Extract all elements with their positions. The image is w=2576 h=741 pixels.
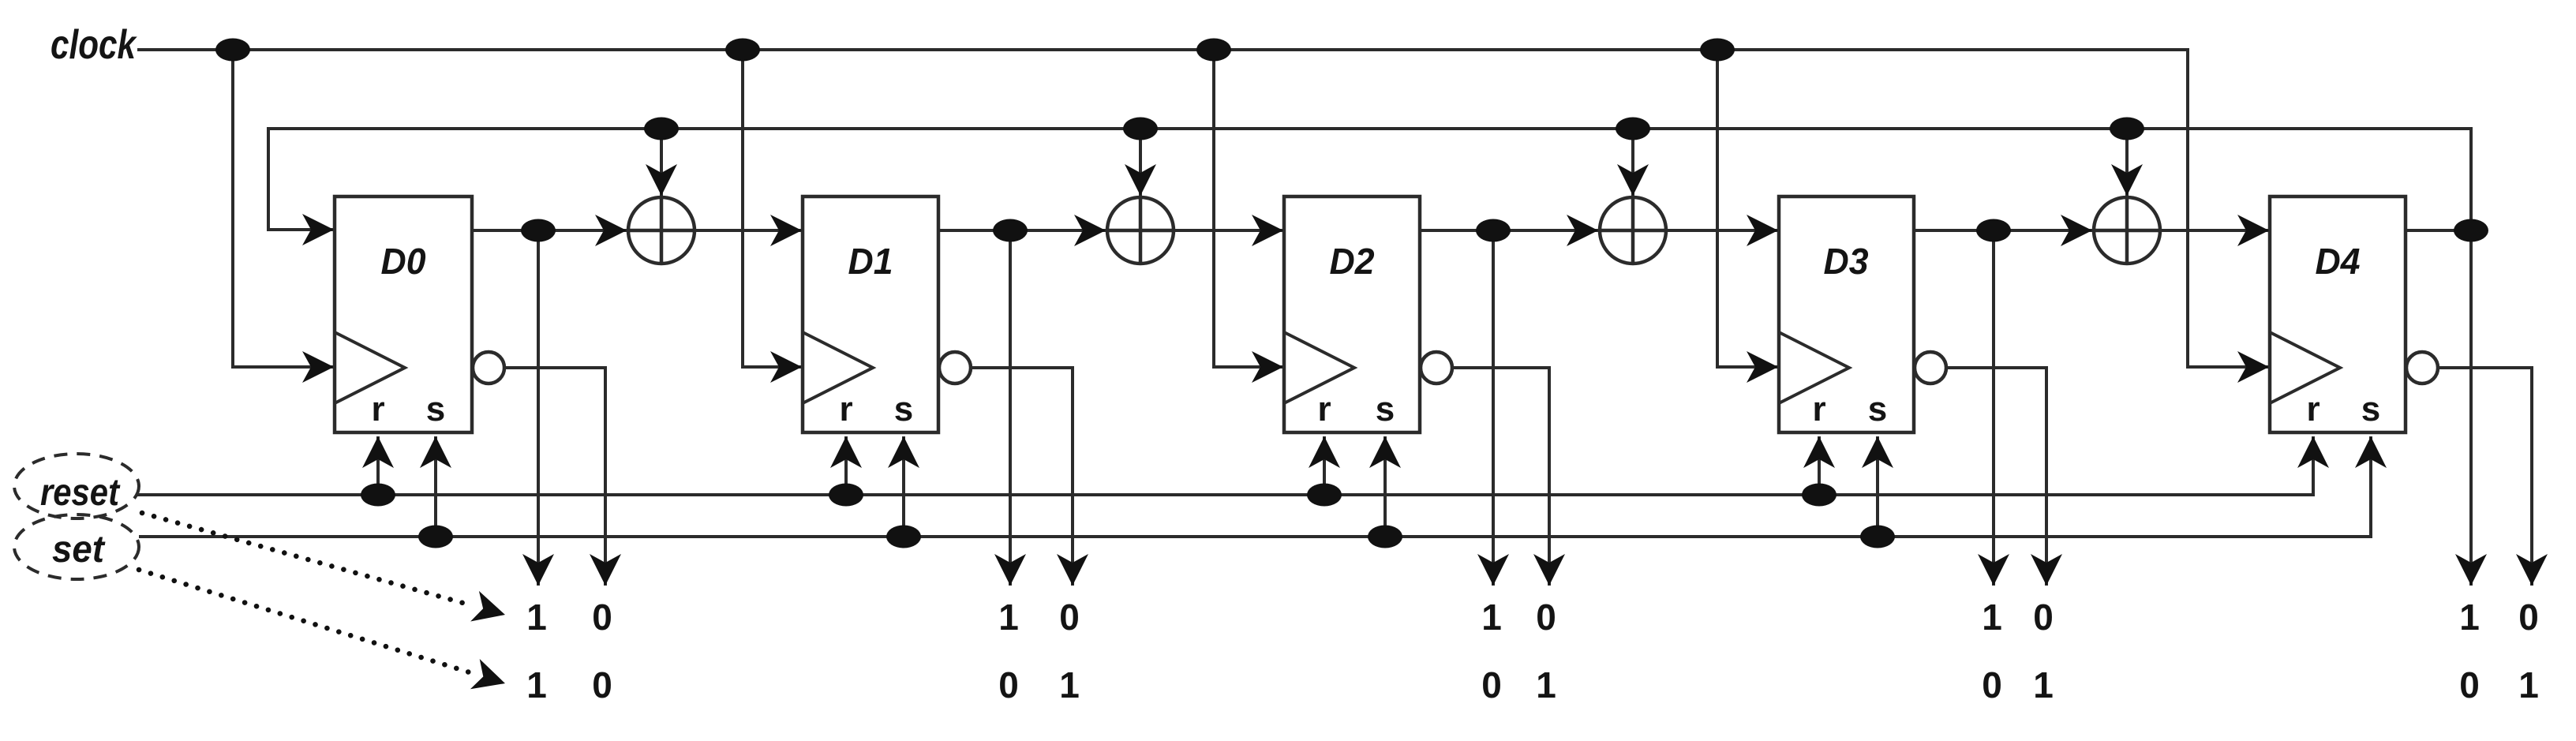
svg-text:1: 1 bbox=[526, 597, 547, 638]
wire: XOR1 output to D1 D-input bbox=[695, 229, 802, 232]
svg-text:0: 0 bbox=[592, 664, 612, 705]
flip-flop D4 clock wedge bbox=[2270, 332, 2340, 403]
junction on reset bus under D3 bbox=[1802, 484, 1837, 507]
wire: D1 Q output to junction bbox=[938, 229, 1010, 232]
junction on set bus under D2 bbox=[1368, 526, 1402, 548]
junction on clock bus above D2 bbox=[1196, 39, 1231, 62]
svg-text:s: s bbox=[1376, 390, 1395, 429]
dotted arrow: set to value row 2 bbox=[139, 570, 505, 689]
junction on feedback bus above XOR4 bbox=[2110, 118, 2144, 140]
svg-text:s: s bbox=[1868, 390, 1887, 429]
svg-text:1: 1 bbox=[2033, 664, 2054, 705]
wire: feedback tap down into XOR2 bbox=[1139, 129, 1142, 196]
junction dot on D0 output bbox=[521, 219, 556, 242]
wire: set tap up into D3 s input bbox=[1876, 436, 1879, 537]
junction on feedback bus above XOR1 bbox=[644, 118, 679, 140]
svg-text:0: 0 bbox=[998, 664, 1019, 705]
svg-text:D1: D1 bbox=[848, 241, 893, 282]
svg-text:1: 1 bbox=[998, 597, 1019, 638]
svg-text:1: 1 bbox=[1982, 597, 2002, 638]
wire: D1 output to XOR2 input bbox=[1010, 229, 1106, 232]
wire: D2 output value drop bbox=[1492, 230, 1495, 586]
wire: D1 inverted output drop bbox=[971, 368, 1073, 586]
wire: clock drop to D3 clock input bbox=[1717, 50, 1778, 367]
svg-text:0: 0 bbox=[1059, 597, 1080, 638]
junction on set bus under D0 bbox=[418, 526, 453, 548]
wire: D0 output to XOR1 input bbox=[538, 229, 627, 232]
wire: D3 Q output to junction bbox=[1914, 229, 1994, 232]
svg-text:0: 0 bbox=[1536, 597, 1556, 638]
XOR gate X4 bbox=[2094, 197, 2160, 264]
junction dot on D3 output bbox=[1976, 219, 2011, 242]
wire: clock drop to D0 clock input bbox=[233, 50, 334, 367]
svg-text:r: r bbox=[371, 390, 384, 429]
wire: D3 output to XOR4 input bbox=[1994, 229, 2092, 232]
flip-flop D3 inverted output bubble bbox=[1915, 352, 1946, 384]
svg-text:r: r bbox=[839, 390, 852, 429]
junction on reset bus under D0 bbox=[361, 484, 395, 507]
svg-text:0: 0 bbox=[592, 597, 612, 638]
flip-flop D3 clock wedge bbox=[1779, 332, 1849, 403]
junction dot on D1 output bbox=[993, 219, 1028, 242]
wire: set bus to D4 s input bbox=[139, 436, 2371, 537]
flip-flop D4 box bbox=[2270, 196, 2406, 432]
svg-text:s: s bbox=[894, 390, 913, 429]
XOR gate X3 bbox=[1600, 197, 1666, 264]
svg-text:1: 1 bbox=[526, 664, 547, 705]
XOR gate X2 bbox=[1107, 197, 1174, 264]
wire: reset tap up into D0 r input bbox=[376, 436, 380, 495]
svg-text:r: r bbox=[1812, 390, 1825, 429]
svg-text:1: 1 bbox=[2459, 597, 2480, 638]
junction on clock bus above D3 bbox=[1700, 39, 1735, 62]
junction on set bus under D3 bbox=[1860, 526, 1895, 548]
wire: set tap up into D0 s input bbox=[434, 436, 437, 537]
wire: XOR4 output to D4 D-input bbox=[2160, 229, 2269, 232]
wire: XOR3 output to D3 D-input bbox=[1666, 229, 1778, 232]
svg-text:r: r bbox=[1317, 390, 1331, 429]
flip-flop D1 clock wedge bbox=[803, 332, 873, 403]
svg-text:clock: clock bbox=[51, 22, 137, 68]
svg-text:r: r bbox=[2306, 390, 2320, 429]
svg-text:1: 1 bbox=[1536, 664, 1556, 705]
flip-flop D0 clock wedge bbox=[335, 332, 405, 403]
svg-text:1: 1 bbox=[1059, 664, 1080, 705]
svg-text:set: set bbox=[52, 529, 106, 571]
wire: D4 Q output to junction bbox=[2406, 229, 2471, 232]
flip-flop D1 inverted output bubble bbox=[939, 352, 971, 384]
svg-text:0: 0 bbox=[2033, 597, 2054, 638]
flip-flop D0 inverted output bubble bbox=[473, 352, 504, 384]
svg-text:0: 0 bbox=[1982, 664, 2002, 705]
svg-text:0: 0 bbox=[2518, 597, 2539, 638]
svg-text:0: 0 bbox=[2459, 664, 2480, 705]
flip-flop D3 box bbox=[1779, 196, 1914, 432]
flip-flop D2 inverted output bubble bbox=[1421, 352, 1452, 384]
wire: D1 output value drop bbox=[1009, 230, 1012, 586]
wire: feedback tap down into XOR4 bbox=[2125, 129, 2129, 196]
wire: clock drop to D1 clock input bbox=[743, 50, 802, 367]
wire: feedback tap down into XOR1 bbox=[660, 129, 663, 196]
junction dot on D2 output bbox=[1476, 219, 1511, 242]
wire: D2 inverted output drop bbox=[1452, 368, 1549, 586]
XOR gate X1 bbox=[628, 197, 695, 264]
flip-flop D0 box bbox=[335, 196, 472, 432]
wire: D3 inverted output drop bbox=[1946, 368, 2046, 586]
flip-flop D2 box bbox=[1284, 196, 1420, 432]
wire: clock bus from label to D4 clock input bbox=[137, 50, 2269, 367]
svg-text:D3: D3 bbox=[1824, 241, 1869, 282]
wire: XOR2 output to D2 D-input bbox=[1174, 229, 1283, 232]
set net dashed ellipse bbox=[14, 515, 139, 579]
svg-text:D4: D4 bbox=[2316, 241, 2361, 282]
wire: D4 output value drop bbox=[2469, 230, 2473, 586]
wire: D2 output to XOR3 input bbox=[1493, 229, 1598, 232]
wire: reset tap up into D3 r input bbox=[1818, 436, 1821, 495]
wire: feedback tap down into XOR3 bbox=[1631, 129, 1634, 196]
wire: reset bus to D4 r input bbox=[136, 436, 2313, 495]
flip-flop D1 box bbox=[803, 196, 938, 432]
reset net dashed ellipse bbox=[14, 454, 139, 518]
wire: D0 Q output to junction bbox=[472, 229, 538, 232]
svg-text:reset: reset bbox=[40, 472, 121, 514]
junction on reset bus under D2 bbox=[1307, 484, 1342, 507]
flip-flop D4 inverted output bubble bbox=[2406, 352, 2438, 384]
svg-text:D0: D0 bbox=[381, 241, 426, 282]
wire: reset tap up into D2 r input bbox=[1323, 436, 1326, 495]
wire: D0 output value drop bbox=[537, 230, 540, 586]
junction on clock bus above D1 bbox=[725, 39, 760, 62]
svg-text:D2: D2 bbox=[1330, 241, 1375, 282]
wire: D0 inverted output drop bbox=[504, 368, 605, 586]
wire: clock drop to D2 clock input bbox=[1214, 50, 1283, 367]
wire: set tap up into D2 s input bbox=[1383, 436, 1387, 537]
junction dot on D4 output bbox=[2454, 219, 2488, 242]
junction on clock bus above D0 bbox=[215, 39, 250, 62]
dotted arrow: reset to value row 1 bbox=[142, 513, 505, 622]
wire: D2 Q output to junction bbox=[1420, 229, 1493, 232]
svg-text:1: 1 bbox=[2518, 664, 2539, 705]
svg-text:s: s bbox=[2361, 390, 2380, 429]
svg-text:s: s bbox=[426, 390, 445, 429]
junction on feedback bus above XOR2 bbox=[1123, 118, 1158, 140]
wire: set tap up into D1 s input bbox=[902, 436, 905, 537]
wire: reset tap up into D1 r input bbox=[844, 436, 848, 495]
junction on feedback bus above XOR3 bbox=[1616, 118, 1650, 140]
wire: D3 output value drop bbox=[1992, 230, 1995, 586]
svg-text:0: 0 bbox=[1481, 664, 1502, 705]
flip-flop D2 clock wedge bbox=[1284, 332, 1354, 403]
svg-text:1: 1 bbox=[1481, 597, 1502, 638]
junction on set bus under D1 bbox=[886, 526, 921, 548]
wire: D4 inverted output drop bbox=[2438, 368, 2532, 586]
junction on reset bus under D1 bbox=[829, 484, 863, 507]
wire: feedback bus from D4 output to D0 D-input bbox=[268, 129, 2471, 230]
